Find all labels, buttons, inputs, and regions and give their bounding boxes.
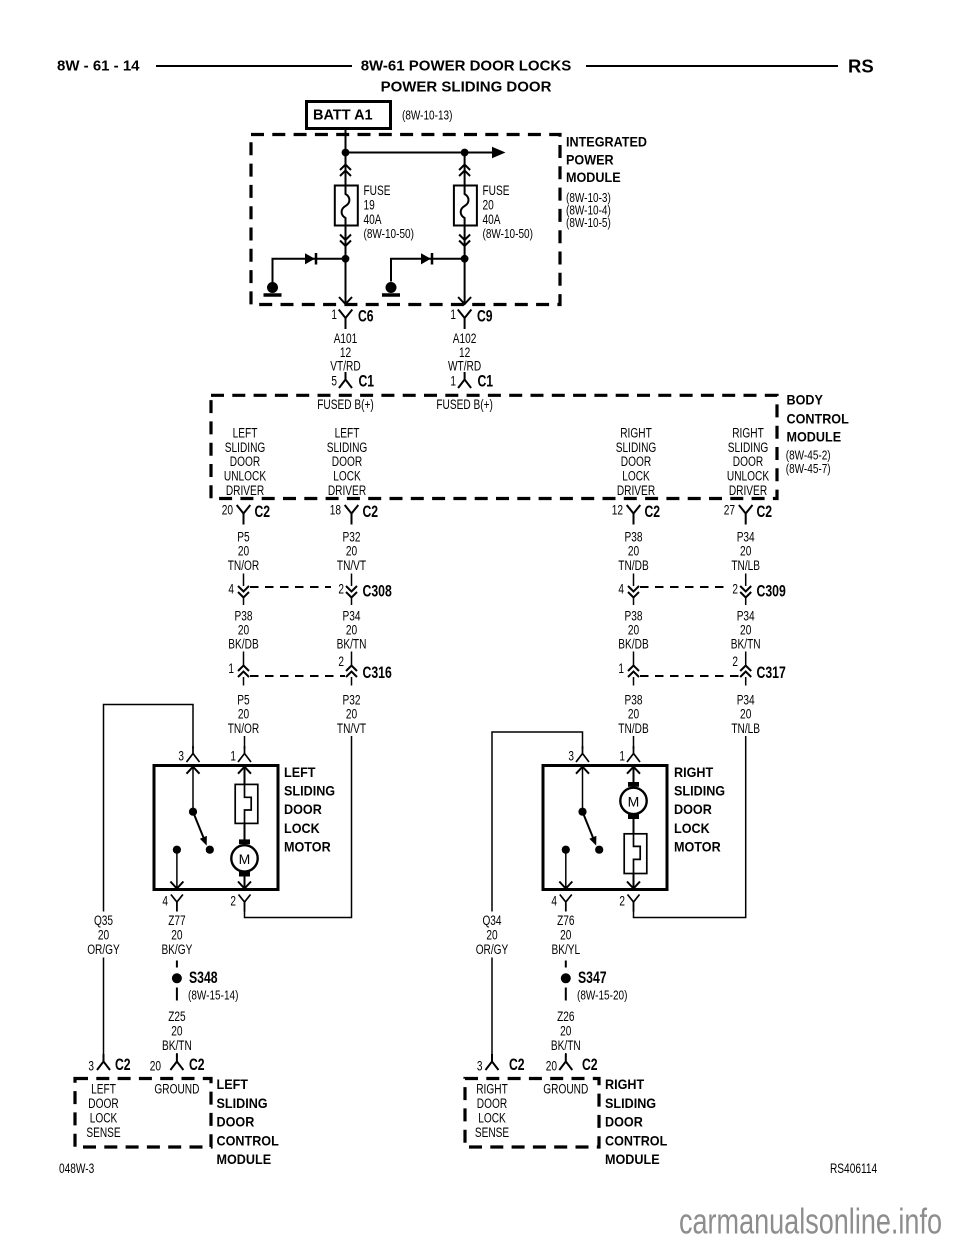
svg-text:VT/RD: VT/RD	[330, 359, 361, 374]
wire bus to fuse 19	[345, 155, 347, 186]
wire P32 labels lower	[337, 693, 366, 737]
svg-text:C2: C2	[645, 502, 661, 521]
wire P38 labels left	[228, 609, 258, 652]
right door lock sense label	[475, 1082, 509, 1141]
svg-text:20: 20	[150, 1059, 161, 1074]
svg-text:carmanualsonline.info: carmanualsonline.info	[679, 1201, 942, 1242]
wire P5 labels upper	[228, 530, 260, 574]
svg-text:1: 1	[331, 307, 337, 322]
wire fuse 20 to junction	[464, 226, 466, 305]
arrow pin 4 exit right	[559, 882, 572, 889]
svg-text:20: 20	[560, 1024, 571, 1039]
svg-text:LEFT: LEFT	[233, 426, 258, 441]
svg-text:4: 4	[618, 582, 624, 597]
svg-text:CONTROL: CONTROL	[605, 1132, 668, 1148]
svg-text:P34: P34	[737, 609, 755, 624]
svg-text:BK/DB: BK/DB	[618, 637, 648, 652]
svg-text:20: 20	[171, 1024, 182, 1039]
svg-text:UNLOCK: UNLOCK	[224, 469, 266, 484]
connector C6 pin 1	[331, 307, 373, 330]
svg-text:SLIDING: SLIDING	[616, 440, 657, 455]
wire into right pin 1	[633, 736, 635, 749]
svg-text:3: 3	[178, 749, 184, 764]
svg-text:P34: P34	[343, 609, 361, 624]
svg-text:20: 20	[628, 623, 639, 638]
wire Z25 labels	[162, 1009, 192, 1053]
svg-text:20: 20	[238, 707, 249, 722]
arrow pin 2 exit right	[627, 882, 640, 889]
svg-text:20: 20	[486, 928, 497, 943]
wire Z76 to splice	[565, 902, 567, 968]
svg-text:C2: C2	[363, 502, 379, 521]
right motor pin 4 connector	[551, 894, 571, 912]
switch output node left	[173, 846, 181, 854]
svg-text:20: 20	[346, 707, 357, 722]
wire BATT A1 to bus	[345, 129, 347, 153]
BCM left sliding door unlock driver label	[224, 426, 266, 498]
wire A101 labels	[330, 331, 361, 374]
svg-text:Z26: Z26	[557, 1009, 574, 1024]
svg-text:SLIDING: SLIDING	[327, 440, 368, 455]
wire diode branch right	[391, 259, 465, 282]
arrow pin 3 entry right	[576, 767, 589, 774]
switch common node left	[189, 808, 197, 816]
svg-text:20: 20	[171, 928, 182, 943]
svg-text:P5: P5	[237, 693, 249, 708]
svg-text:P38: P38	[625, 530, 643, 545]
svg-text:1: 1	[618, 661, 624, 676]
svg-text:(8W-45-2): (8W-45-2)	[786, 448, 831, 462]
svg-text:BK/TN: BK/TN	[162, 1038, 192, 1053]
svg-text:18: 18	[330, 503, 341, 518]
svg-text:20: 20	[628, 707, 639, 722]
svg-text:C2: C2	[189, 1055, 205, 1074]
svg-text:4: 4	[162, 894, 168, 909]
connector C2 pin 20	[222, 502, 270, 525]
wire Q35 labels	[87, 913, 120, 957]
svg-text:20: 20	[740, 623, 751, 638]
wire P34 labels left	[337, 609, 367, 652]
svg-text:(8W-10-50): (8W-10-50)	[364, 227, 414, 241]
integrated power module label	[566, 134, 647, 230]
BCM right sliding door lock driver label	[616, 426, 657, 498]
right sliding door control module box	[465, 1079, 599, 1148]
connector C2 pin 20 ground right	[546, 1054, 598, 1074]
svg-text:2: 2	[338, 582, 344, 597]
C317 dashed link	[640, 675, 739, 677]
svg-text:S348: S348	[189, 968, 218, 987]
arrow into C9	[458, 297, 471, 304]
svg-text:C9: C9	[477, 307, 493, 326]
svg-text:OR/GY: OR/GY	[87, 942, 120, 957]
svg-text:UNLOCK: UNLOCK	[727, 469, 769, 484]
wire into C308 pin 4	[243, 574, 245, 587]
svg-text:DOOR: DOOR	[674, 801, 712, 817]
wire P38 labels mid right	[618, 609, 648, 652]
svg-text:DOOR: DOOR	[733, 454, 764, 469]
svg-text:MOTOR: MOTOR	[674, 838, 721, 854]
wire P5 labels lower	[228, 693, 260, 737]
svg-text:MODULE: MODULE	[566, 169, 621, 185]
arrow pin 4 exit	[170, 882, 183, 889]
svg-text:TN/VT: TN/VT	[337, 558, 366, 573]
connector C317 pin 2	[732, 652, 751, 686]
wire fuse 19 to junction	[345, 226, 347, 305]
svg-text:DRIVER: DRIVER	[729, 483, 767, 498]
svg-text:DRIVER: DRIVER	[226, 483, 264, 498]
svg-text:BATT A1: BATT A1	[313, 108, 373, 124]
svg-text:(8W-10-13): (8W-10-13)	[402, 109, 452, 123]
switch output node right	[562, 846, 570, 854]
wire P34 labels mid right	[731, 609, 761, 652]
svg-text:POWER SLIDING DOOR: POWER SLIDING DOOR	[381, 79, 552, 96]
svg-text:2: 2	[338, 654, 344, 669]
svg-text:C308: C308	[363, 582, 392, 601]
connector chevrons below fuse 20	[459, 235, 470, 247]
svg-text:DOOR: DOOR	[477, 1096, 508, 1111]
svg-text:BK/YL: BK/YL	[551, 942, 580, 957]
connector C308 pin 2	[338, 574, 357, 606]
svg-text:LEFT: LEFT	[284, 764, 316, 780]
node bus junction right	[461, 149, 469, 157]
wire pin1 into motor right	[633, 767, 635, 783]
connector C2 pin 20 ground left	[150, 1054, 205, 1074]
svg-text:MODULE: MODULE	[787, 429, 842, 445]
svg-text:5: 5	[331, 374, 337, 389]
svg-text:C2: C2	[757, 502, 773, 521]
svg-text:(8W-10-50): (8W-10-50)	[483, 227, 533, 241]
body control module label	[786, 392, 849, 477]
svg-text:Z77: Z77	[168, 913, 185, 928]
left motor pin 4 connector	[162, 894, 183, 912]
wire pin3 into switch right	[582, 767, 584, 812]
fuse 19 value labels	[364, 183, 414, 241]
svg-text:RIGHT: RIGHT	[732, 426, 764, 441]
svg-text:P38: P38	[625, 693, 643, 708]
motor M right	[620, 782, 646, 819]
diode D2	[421, 253, 432, 265]
wire P32 labels upper	[337, 530, 366, 574]
diode D1	[305, 253, 316, 265]
svg-text:BK/DB: BK/DB	[228, 637, 258, 652]
fuse F20	[454, 186, 477, 226]
left motor name label	[284, 764, 335, 854]
svg-text:Z76: Z76	[557, 913, 574, 928]
svg-text:20: 20	[483, 198, 494, 213]
svg-text:DOOR: DOOR	[88, 1096, 119, 1111]
connector C9 pin 1	[450, 307, 492, 330]
left motor pin 3 connector	[178, 746, 199, 764]
connector C1 pin 5	[331, 372, 374, 391]
svg-text:2: 2	[732, 654, 738, 669]
wire switch output down	[176, 854, 178, 889]
svg-text:Q35: Q35	[94, 913, 113, 928]
svg-text:RIGHT: RIGHT	[674, 764, 714, 780]
wire Q35 lower run	[103, 958, 105, 1058]
svg-text:P32: P32	[343, 693, 361, 708]
svg-text:C6: C6	[358, 307, 374, 326]
svg-text:3: 3	[477, 1059, 483, 1074]
svg-text:FUSED B(+): FUSED B(+)	[436, 397, 493, 412]
svg-text:GROUND: GROUND	[154, 1082, 199, 1097]
svg-text:MOTOR: MOTOR	[284, 838, 331, 854]
svg-text:4: 4	[551, 894, 557, 909]
svg-text:CONTROL: CONTROL	[787, 410, 850, 426]
svg-text:8W - 61 - 14: 8W - 61 - 14	[57, 58, 140, 75]
connector chevrons above fuse 20	[459, 165, 470, 177]
svg-text:SLIDING: SLIDING	[605, 1095, 656, 1111]
svg-text:048W-3: 048W-3	[59, 1161, 94, 1176]
svg-text:BK/TN: BK/TN	[551, 1038, 581, 1053]
svg-text:TN/DB: TN/DB	[618, 558, 648, 573]
connector C2 pin 3 right	[477, 1054, 525, 1074]
svg-text:(8W-45-7): (8W-45-7)	[786, 462, 831, 476]
wire Q35 top run	[104, 705, 194, 912]
wire switch output down right	[565, 854, 567, 889]
svg-text:4: 4	[228, 582, 234, 597]
svg-text:20: 20	[740, 544, 751, 559]
wire motor to breaker right	[633, 819, 635, 834]
wire bus	[346, 152, 498, 154]
svg-text:BODY: BODY	[787, 392, 824, 408]
svg-text:C2: C2	[582, 1055, 598, 1074]
svg-text:TN/OR: TN/OR	[228, 721, 260, 736]
right sliding door lock motor box	[543, 766, 667, 890]
svg-text:DOOR: DOOR	[217, 1114, 255, 1130]
wire diode branch left	[273, 259, 346, 283]
connector C309 pin 2	[732, 574, 751, 606]
svg-text:1: 1	[228, 661, 234, 676]
svg-text:P34: P34	[737, 530, 755, 545]
svg-text:OR/GY: OR/GY	[476, 942, 509, 957]
ground ball left	[264, 282, 282, 295]
svg-text:DOOR: DOOR	[230, 454, 261, 469]
svg-text:12: 12	[612, 503, 623, 518]
svg-text:20: 20	[346, 544, 357, 559]
svg-text:C1: C1	[359, 372, 375, 391]
wire into C309 pin 4	[633, 574, 635, 587]
left control module name	[217, 1076, 280, 1167]
svg-text:P32: P32	[343, 530, 361, 545]
svg-text:1: 1	[230, 749, 236, 764]
svg-text:A101: A101	[334, 331, 358, 346]
arrow into C6	[339, 297, 352, 304]
right motor pin 1 connector	[619, 746, 640, 764]
ground ball right	[382, 282, 400, 295]
connector C316 pin 2	[338, 652, 357, 686]
svg-text:LEFT: LEFT	[335, 426, 360, 441]
svg-text:Z25: Z25	[168, 1009, 185, 1024]
svg-text:CONTROL: CONTROL	[217, 1132, 280, 1148]
wire Z77 to splice	[176, 902, 178, 968]
svg-text:1: 1	[450, 374, 456, 389]
left door lock sense label	[86, 1082, 120, 1141]
arrow pin 2 exit	[238, 882, 251, 889]
svg-text:RIGHT: RIGHT	[605, 1076, 645, 1092]
wire pin1 into breaker	[244, 767, 246, 785]
left motor pin 1 connector	[230, 746, 251, 764]
svg-text:BK/GY: BK/GY	[161, 942, 192, 957]
arrow pin 1 entry right	[627, 767, 640, 774]
svg-text:(8W-10-5): (8W-10-5)	[566, 216, 611, 230]
svg-text:1: 1	[450, 307, 456, 322]
svg-text:S347: S347	[578, 968, 607, 987]
svg-text:LOCK: LOCK	[90, 1111, 118, 1126]
integrated power module box	[251, 135, 560, 305]
svg-text:LEFT: LEFT	[217, 1076, 249, 1092]
wire P32 down right of left box	[245, 736, 352, 918]
right motor pin 2 connector	[619, 894, 639, 912]
svg-text:FUSED B(+): FUSED B(+)	[317, 397, 374, 412]
svg-text:(8W-15-20): (8W-15-20)	[577, 989, 627, 1003]
svg-text:SLIDING: SLIDING	[225, 440, 266, 455]
circuit breaker left	[235, 784, 258, 823]
svg-text:SLIDING: SLIDING	[728, 440, 769, 455]
svg-text:DRIVER: DRIVER	[328, 483, 366, 498]
svg-text:P38: P38	[625, 609, 643, 624]
svg-text:C316: C316	[363, 663, 392, 682]
svg-text:BK/TN: BK/TN	[731, 637, 761, 652]
wire A102 labels	[448, 331, 481, 374]
svg-text:C309: C309	[757, 582, 786, 601]
BCM left sliding door lock driver label	[327, 426, 368, 498]
svg-text:Q34: Q34	[482, 913, 501, 928]
circuit breaker right	[624, 834, 647, 874]
connector C2 pin 3 left	[88, 1054, 130, 1074]
wire P38 labels upper right	[618, 530, 648, 574]
svg-text:LOCK: LOCK	[674, 820, 710, 836]
svg-text:DOOR: DOOR	[332, 454, 363, 469]
body control module box	[211, 395, 777, 498]
motor M left	[231, 839, 257, 876]
connector C2 pin 27	[724, 502, 772, 525]
fuse F19	[335, 186, 358, 226]
svg-text:P34: P34	[737, 693, 755, 708]
svg-text:MODULE: MODULE	[217, 1151, 272, 1167]
wire bus to fuse 20	[464, 155, 466, 186]
wire P34 labels upper right	[731, 530, 760, 574]
svg-text:LOCK: LOCK	[333, 469, 361, 484]
svg-text:LOCK: LOCK	[622, 469, 650, 484]
connector C317 pin 1	[618, 652, 639, 686]
node bus junction left	[342, 149, 350, 157]
svg-text:C2: C2	[255, 502, 271, 521]
fuse 20 value labels	[483, 183, 533, 241]
C308 dashed link	[250, 586, 331, 588]
svg-text:1: 1	[619, 749, 625, 764]
left sliding door lock motor box	[154, 766, 278, 890]
left motor pin 2 connector	[230, 894, 250, 912]
svg-text:TN/LB: TN/LB	[731, 721, 760, 736]
connector C1 pin 1	[450, 372, 493, 391]
right motor name label	[674, 764, 725, 854]
svg-text:SLIDING: SLIDING	[284, 783, 335, 799]
svg-text:LOCK: LOCK	[284, 820, 320, 836]
svg-text:3: 3	[88, 1059, 94, 1074]
left sliding door control module box	[75, 1079, 211, 1148]
connector chevrons below fuse 19	[340, 235, 351, 247]
svg-text:20: 20	[238, 544, 249, 559]
node fuse 20 output	[461, 255, 469, 263]
switch blade left	[193, 812, 207, 846]
svg-text:20: 20	[238, 623, 249, 638]
wire Z26 labels	[551, 1009, 581, 1053]
wire breaker to pin 2 right	[633, 874, 635, 889]
svg-text:A102: A102	[453, 331, 477, 346]
svg-text:RIGHT: RIGHT	[476, 1082, 508, 1097]
connector C316 pin 1	[228, 652, 249, 686]
svg-text:M: M	[239, 851, 251, 867]
svg-text:2: 2	[230, 894, 236, 909]
svg-text:2: 2	[619, 894, 625, 909]
wire Q34 top run	[492, 732, 583, 912]
svg-text:LOCK: LOCK	[478, 1111, 506, 1126]
svg-text:20: 20	[546, 1059, 557, 1074]
svg-text:20: 20	[222, 503, 233, 518]
svg-text:LEFT: LEFT	[91, 1082, 116, 1097]
svg-text:TN/DB: TN/DB	[618, 721, 648, 736]
svg-text:19: 19	[364, 198, 375, 213]
header rule left	[156, 65, 352, 67]
wire Q34 labels	[476, 913, 509, 957]
right motor pin 3 connector	[568, 746, 589, 764]
arrow pin 1 entry	[238, 767, 251, 774]
svg-text:INTEGRATED: INTEGRATED	[566, 134, 647, 150]
wire motor to pin 2	[244, 877, 246, 889]
wire P34 down right of right box	[634, 736, 746, 918]
svg-text:40A: 40A	[483, 212, 501, 227]
wire Z76 labels	[551, 913, 580, 957]
svg-text:TN/OR: TN/OR	[228, 558, 260, 573]
svg-text:BK/TN: BK/TN	[337, 637, 367, 652]
wire S347 to Z26	[565, 988, 567, 1001]
node fuse 19 output	[342, 255, 350, 263]
BCM right sliding door unlock driver label	[727, 426, 769, 498]
wire P38 labels lower right	[618, 693, 648, 737]
wire pin3 into switch	[192, 767, 194, 812]
svg-text:P38: P38	[235, 609, 253, 624]
connector C2 pin 18	[330, 502, 378, 525]
svg-text:20: 20	[560, 928, 571, 943]
C316 dashed link	[250, 675, 345, 677]
svg-text:8W-61 POWER DOOR LOCKS: 8W-61 POWER DOOR LOCKS	[361, 58, 572, 75]
svg-text:DRIVER: DRIVER	[617, 483, 655, 498]
splice S348	[172, 968, 218, 987]
svg-text:P5: P5	[237, 530, 249, 545]
svg-text:POWER: POWER	[566, 151, 614, 167]
wire P34 labels lower right	[731, 693, 760, 737]
svg-text:3: 3	[568, 749, 574, 764]
svg-text:RS: RS	[848, 56, 874, 77]
battery feed BATT A1 box	[307, 102, 391, 129]
wire into left pin 1	[244, 736, 246, 749]
bus arrow	[492, 147, 506, 158]
svg-text:DOOR: DOOR	[284, 801, 322, 817]
svg-text:MODULE: MODULE	[605, 1151, 660, 1167]
svg-text:M: M	[628, 793, 640, 809]
svg-text:C2: C2	[115, 1055, 131, 1074]
connector C309 pin 4	[618, 582, 639, 606]
wire Z26 lower	[565, 1053, 567, 1057]
svg-text:SLIDING: SLIDING	[674, 783, 725, 799]
arrow pin 3 entry	[187, 767, 200, 774]
switch contact node left	[206, 846, 214, 854]
svg-text:RIGHT: RIGHT	[620, 426, 652, 441]
wire S348 to Z25	[176, 988, 178, 1001]
wire Z77 labels	[161, 913, 192, 957]
svg-text:SLIDING: SLIDING	[217, 1095, 268, 1111]
right control module name	[605, 1076, 668, 1167]
